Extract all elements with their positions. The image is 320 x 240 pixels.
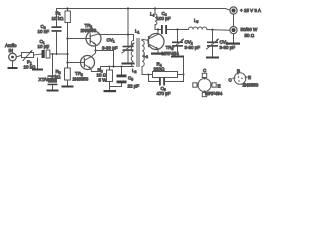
- capacitor C1 electrolytic: [42, 50, 68, 58]
- label L2: [132, 68, 137, 74]
- svg-text:50/80 W: 50/80 W: [241, 27, 259, 32]
- node C1 junction: [66, 53, 68, 55]
- svg-text:E: E: [218, 84, 221, 89]
- wire TR2 collector lead: [91, 51, 96, 58]
- label R3 10 Ohm 5 W: [97, 68, 108, 83]
- wire emitter bus y66: [101, 66, 134, 68]
- node collector bus CV1: [127, 33, 129, 35]
- wire TR1 collector: [97, 33, 133, 35]
- ground CV2: [171, 56, 184, 58]
- label R1 10 kOhm: [52, 10, 65, 20]
- svg-text:L5: L5: [194, 18, 199, 24]
- label C2 10 nF: [38, 24, 50, 34]
- node R1 top on rail: [66, 7, 68, 9]
- node R3 top: [109, 66, 111, 68]
- inductor L4: [155, 9, 158, 30]
- wire collector to C4: [158, 29, 161, 31]
- ground CV3: [206, 57, 219, 59]
- label Audio IN: [5, 43, 17, 53]
- wire rail drop to collector node: [127, 9, 129, 35]
- label C1 10 uF: [38, 39, 50, 50]
- node TR2 base: [66, 61, 68, 63]
- node R4 left: [148, 74, 150, 76]
- label CV1 3-30 pF: [102, 38, 118, 51]
- node CV2 top: [176, 28, 178, 30]
- node rail L4: [154, 7, 156, 9]
- label legend MRF454: [205, 91, 223, 96]
- node CV3 top: [211, 29, 213, 31]
- label L3: [144, 53, 149, 59]
- variable capacitor CV1: [122, 35, 134, 63]
- capacitor C5: [149, 75, 184, 86]
- svg-text:2N3553: 2N3553: [73, 77, 89, 82]
- wire C2 column from rail corner: [56, 9, 58, 27]
- svg-text:CV1: CV1: [107, 38, 115, 44]
- label R2 1 kOhm: [51, 69, 61, 80]
- transistor TR2 2N3553: [81, 56, 95, 70]
- label legend 2N3553: [243, 83, 259, 88]
- svg-text:B: B: [237, 69, 240, 74]
- label C5 470 pF: [157, 86, 171, 96]
- svg-text:220Ω: 220Ω: [154, 67, 166, 72]
- resistor R2: [65, 68, 71, 86]
- ground output terminal: [227, 34, 240, 45]
- label legend E: [218, 84, 221, 89]
- svg-text:C: C: [229, 78, 233, 83]
- svg-text:100 pF: 100 pF: [157, 16, 171, 21]
- label P1 10 kOhm: [24, 60, 37, 70]
- svg-text:E: E: [248, 75, 251, 80]
- svg-text:L3: L3: [144, 53, 149, 59]
- svg-text:IN: IN: [9, 48, 14, 53]
- label TR1 2N3553: [81, 23, 97, 33]
- terminal RF output: [230, 27, 237, 34]
- node rail CV1 column: [127, 7, 129, 9]
- capacitor C3: [110, 67, 127, 87]
- label legend E2: [248, 75, 251, 80]
- svg-text:470 pF: 470 pF: [157, 91, 171, 96]
- svg-text:C3: C3: [128, 76, 133, 82]
- transformer core: [137, 39, 139, 67]
- node TR3 collector: [157, 28, 159, 30]
- label legend C: [203, 68, 207, 73]
- svg-text:3-30 pF: 3-30 pF: [185, 45, 201, 50]
- resistor R3: [107, 67, 113, 91]
- wire crystal drop: [52, 54, 54, 75]
- svg-text:2N3553: 2N3553: [81, 28, 97, 33]
- wire pot to C1: [34, 54, 42, 55]
- svg-text:+ 15 V 3 A: + 15 V 3 A: [240, 8, 261, 13]
- capacitor C4: [161, 25, 189, 34]
- label CV3 3-30 pF: [220, 40, 236, 51]
- label legend C2: [229, 78, 233, 83]
- wire base node column: [67, 39, 69, 69]
- svg-text:1 kΩ: 1 kΩ: [51, 75, 61, 80]
- label L4: [150, 12, 155, 18]
- wire TR2 base: [68, 62, 85, 64]
- variable capacitor CV3: [207, 30, 219, 57]
- node drop joins bus: [112, 65, 114, 67]
- transistor TR1 2N3553: [86, 31, 101, 51]
- label CV2 3-30 pF: [185, 40, 201, 51]
- wire between terminals: [233, 14, 235, 26]
- ground crystal: [47, 90, 59, 92]
- svg-text:22 µF: 22 µF: [128, 84, 140, 89]
- ground potentiometer: [32, 58, 43, 71]
- ground audio jack: [8, 61, 18, 69]
- svg-text:C: C: [203, 68, 207, 73]
- resistor R1: [65, 9, 70, 39]
- resistor R4: [142, 72, 184, 78]
- wire TR3 emitter: [157, 49, 159, 53]
- wire supply rail: [57, 9, 230, 11]
- svg-text:MRF454: MRF454: [205, 91, 223, 96]
- label +15 V 3 A: [240, 8, 261, 13]
- connector audio input jack: [9, 53, 22, 61]
- svg-text:3-30 pF: 3-30 pF: [102, 45, 118, 50]
- svg-text:MRF454: MRF454: [162, 51, 180, 56]
- label output 50/80 W 50 Ohm: [241, 27, 259, 38]
- node TR1 base: [66, 37, 68, 39]
- legend MRF454 package: [193, 73, 216, 96]
- svg-text:50 Ω: 50 Ω: [245, 33, 255, 38]
- potentiometer P1: [22, 51, 34, 61]
- transformer T1 primary L1: [131, 35, 133, 67]
- wire TR2 emitter to R3 node: [91, 67, 101, 72]
- svg-text:XTAL: XTAL: [39, 77, 50, 82]
- svg-text:10 nF: 10 nF: [38, 29, 50, 34]
- svg-text:+: +: [47, 46, 49, 50]
- ground TR3 emitter: [151, 53, 164, 55]
- svg-text:L4: L4: [150, 12, 155, 18]
- legend 2N3553 package: [233, 72, 248, 85]
- label TR2 2N3553: [73, 71, 89, 82]
- wire emitter drop x113: [113, 51, 115, 67]
- ground R3 C3: [104, 90, 117, 92]
- wire TR1 base: [68, 38, 87, 40]
- label legend B: [237, 69, 240, 74]
- transistor TR3 MRF454: [148, 34, 164, 50]
- node R4 right: [183, 74, 185, 76]
- svg-text:5 W: 5 W: [99, 78, 108, 83]
- svg-text:L2: L2: [132, 68, 137, 74]
- label C4 100 pF: [157, 11, 171, 21]
- node C3 top: [121, 66, 123, 68]
- ground CV1: [122, 63, 135, 65]
- ground R2: [62, 86, 74, 88]
- inductor L5: [189, 27, 230, 30]
- label XTAL: [39, 77, 50, 82]
- capacitor C2: [52, 26, 62, 54]
- svg-text:3-30 pF: 3-30 pF: [220, 45, 236, 50]
- wire TR3 collector: [157, 30, 159, 35]
- label L5: [194, 18, 199, 24]
- node crystal junction: [52, 53, 54, 55]
- svg-text:L1: L1: [135, 29, 140, 35]
- svg-text:2N3553: 2N3553: [243, 83, 259, 88]
- crystal XTAL: [48, 75, 58, 89]
- svg-text:10 kΩ: 10 kΩ: [52, 16, 65, 21]
- node TR1 emitter junction: [94, 49, 96, 51]
- wire R4 right to ground bar: [183, 58, 185, 75]
- variable capacitor CV2: [172, 30, 184, 56]
- transformer secondary L2: [142, 39, 149, 74]
- wire emitter node to drop: [96, 50, 114, 52]
- label C3 22 uF: [128, 76, 140, 89]
- label TR3 MRF454: [162, 45, 180, 56]
- label R4 220 Ohm: [154, 62, 166, 72]
- label L1: [135, 29, 140, 35]
- terminal +15V supply: [230, 7, 237, 14]
- node C2 junction: [56, 53, 58, 55]
